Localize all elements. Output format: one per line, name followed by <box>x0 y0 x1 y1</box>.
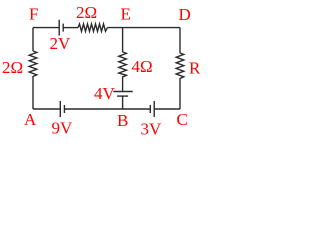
svg-text:3V: 3V <box>141 119 163 138</box>
svg-text:2Ω: 2Ω <box>2 58 23 77</box>
svg-text:4Ω: 4Ω <box>132 57 153 76</box>
svg-text:2Ω: 2Ω <box>76 3 97 22</box>
svg-text:R: R <box>189 59 201 78</box>
svg-text:4V: 4V <box>94 84 116 103</box>
svg-text:D: D <box>179 5 191 24</box>
svg-text:C: C <box>177 110 188 129</box>
svg-text:B: B <box>117 111 128 130</box>
svg-text:A: A <box>24 110 37 129</box>
svg-text:9V: 9V <box>52 119 74 138</box>
svg-text:2V: 2V <box>50 34 72 53</box>
svg-text:E: E <box>121 4 131 23</box>
svg-text:F: F <box>29 5 38 24</box>
